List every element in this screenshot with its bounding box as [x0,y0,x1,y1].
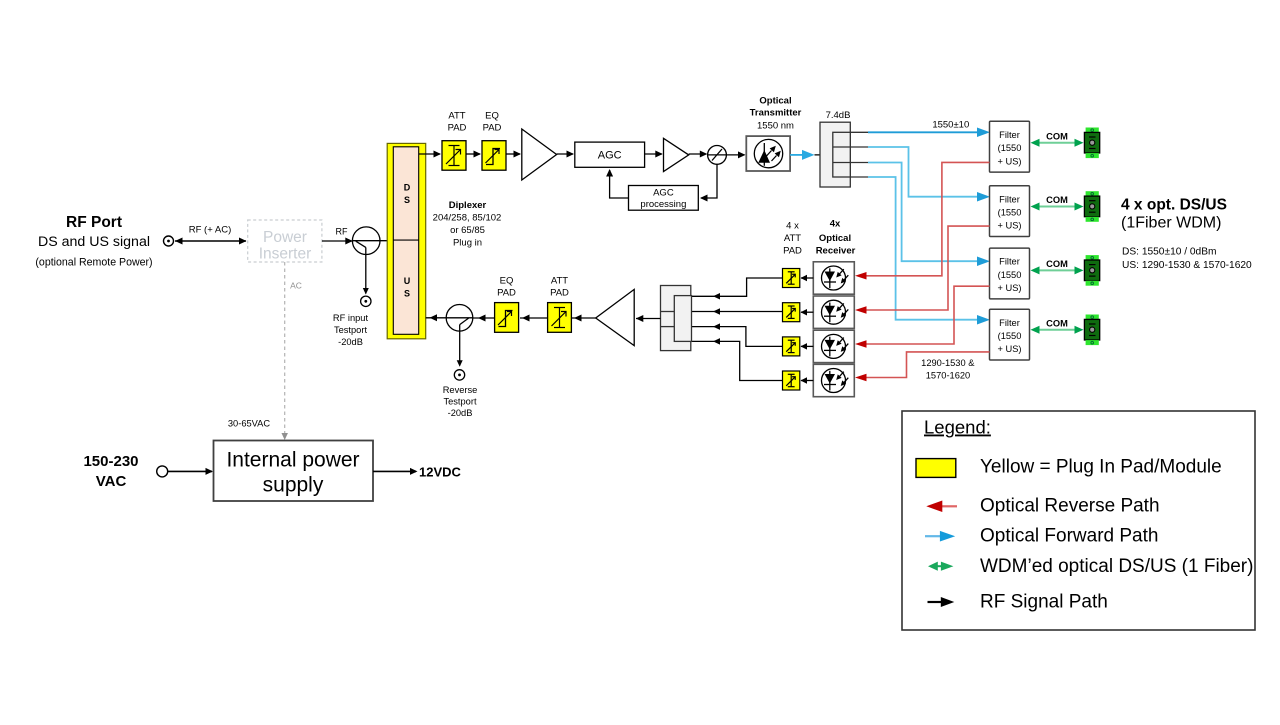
svg-text:12VDC: 12VDC [419,465,462,480]
optical reverse fibre filter2 to RX2 [855,226,990,314]
svg-text:Power: Power [263,229,307,246]
svg-text:(optional Remote Power): (optional Remote Power) [35,257,152,269]
directional coupler C2 (reverse test tap) [446,305,473,332]
svg-text:COM: COM [1046,259,1068,269]
svg-text:ATT: ATT [448,111,465,122]
svg-text:PAD: PAD [550,288,569,299]
WDM filter F3 [990,248,1030,299]
wire AGC processing feedback to AGC [606,169,628,198]
AGC block U1 [575,142,645,167]
wire ATT2 to EQ2 [520,315,548,322]
svg-text:Filter: Filter [999,318,1020,328]
wire RX1 to ATT pad [801,275,814,282]
svg-text:RF input: RF input [333,313,369,323]
svg-text:RF Port: RF Port [66,214,122,231]
wire RX4 to ATT pad [801,377,814,384]
svg-text:COM: COM [1046,195,1068,205]
svg-text:Optical Forward Path: Optical Forward Path [980,526,1158,547]
svg-text:4x: 4x [830,219,841,230]
optical reverse fibre filter3 to RX3 [855,286,990,348]
svg-text:1550 nm: 1550 nm [757,121,794,132]
wire AC dashed from power inserter down [281,262,301,440]
svg-text:Filter: Filter [999,130,1020,140]
wire ATT-R3 to combiner [692,323,783,346]
wire EQ1 to amplifier A1 [506,151,521,158]
svg-text:Legend:: Legend: [924,417,991,438]
svg-text:Diplexer: Diplexer [449,200,487,211]
svg-text:+ US): + US) [997,283,1021,293]
svg-text:Testport: Testport [334,325,367,335]
optical forward fibre to filter 1 [868,128,990,138]
svg-text:(1550: (1550 [998,270,1022,280]
optical connector CON1 [1084,128,1099,159]
optical receiver RX2 [813,296,854,328]
label Diplexer [433,200,502,249]
wire EQ2 to coupler C2 [473,315,495,322]
optical reverse fibre filter4 to RX4 [855,352,990,381]
label 4 x opt. DS/US (1Fiber WDM) [1121,197,1227,232]
legend WDM double arrow [928,562,953,571]
wire ATT1 to EQ1 [466,151,481,158]
svg-text:+ US): + US) [997,221,1021,231]
wire C3 to optical transmitter [726,151,745,158]
equalizer pad EQ2 (plug-in) [495,303,519,333]
attenuator pad ATT-R2 (plug-in) [783,303,800,322]
svg-text:+ US): + US) [997,344,1021,354]
label DS/US wavelengths [1122,247,1252,272]
label Reverse Testport -20dB [443,385,478,418]
svg-text:AC: AC [290,281,302,291]
svg-text:(1550: (1550 [998,208,1022,218]
svg-text:ATT: ATT [551,276,568,287]
svg-text:US: 1290-1530 & 1570-1620: US: 1290-1530 & 1570-1620 [1122,260,1252,271]
attenuator pad ATT-R4 (plug-in) [783,371,800,390]
svg-text:DS and US signal: DS and US signal [38,234,150,250]
legend RF signal arrow [928,597,955,607]
wire RX2 to ATT pad [801,309,814,316]
directional coupler C1 (RF input test tap) [352,227,387,255]
internal power supply PS1 [214,441,374,502]
svg-text:supply: supply [263,474,324,497]
attenuator pad ATT2 (plug-in) [548,303,572,333]
label ATT PAD (reverse) [550,276,569,299]
svg-text:AGC: AGC [653,188,674,199]
svg-text:ATT: ATT [784,233,801,244]
svg-text:processing: processing [640,199,686,210]
svg-text:1550±10: 1550±10 [932,120,969,131]
wire A1 to AGC [557,151,574,158]
attenuator pad ATT1 (plug-in) [442,141,466,171]
power inserter (optional) [248,220,322,263]
wire combiner to amplifier A3 [636,315,661,322]
optical transmitter U3 [746,136,790,171]
svg-text:S: S [404,195,410,205]
wire C2 tap down to reverse testport [457,325,463,367]
wire ATT-R1 to combiner [692,278,783,300]
label Optical Transmitter 1550 nm [750,96,802,132]
optical forward wire TX to splitter (blue arrow) [790,150,833,160]
optical connector CON2 [1084,191,1099,222]
svg-text:-20dB: -20dB [338,337,363,347]
WDM filter F4 [990,309,1030,360]
WDM fibre COM link F3 (green double arrow) [1031,266,1084,274]
wire C3 tap down to AGC processing [700,164,717,201]
svg-text:VAC: VAC [96,473,127,490]
WDM fibre COM link F2 (green double arrow) [1031,203,1084,211]
svg-text:COM: COM [1046,131,1068,141]
svg-text:PAD: PAD [783,246,802,257]
node RF Port label [35,214,152,269]
diplexer plug-in module (yellow) [387,143,426,338]
legend optical reverse arrow [926,501,957,513]
svg-text:1570-1620: 1570-1620 [926,371,970,381]
coupler C3 (AGC sample tap) [708,146,727,165]
optical splitter 7.4dB [820,122,868,187]
svg-text:D: D [404,183,411,193]
diplexer body DS/US [393,147,418,334]
svg-text:Inserter: Inserter [259,246,312,263]
wire PI to coupler, label RF [322,227,353,245]
svg-text:+ US): + US) [997,156,1021,166]
svg-text:EQ: EQ [485,111,499,122]
svg-text:COM: COM [1046,318,1068,328]
AC input connector [157,466,168,477]
amplifier A3 (reverse) [596,289,635,345]
svg-text:RF: RF [336,227,348,237]
WDM filter F1 [990,121,1030,172]
label EQ PAD (forward) [483,111,502,134]
optical connector CON3 [1084,255,1099,286]
wire C2 to diplexer US [426,314,447,321]
amplifier A2 (forward) [664,138,689,171]
label 4x Optical Receiver [816,219,856,257]
optical receiver RX1 [813,262,854,294]
label 1290-1530 & 1570-1620 [921,358,975,381]
wire RX3 to ATT pad [801,343,814,350]
svg-text:4 x opt. DS/US: 4 x opt. DS/US [1121,197,1227,214]
svg-text:PAD: PAD [497,288,516,299]
wire RF (+ AC) [175,225,247,245]
svg-text:DS: 1550±10 / 0dBm: DS: 1550±10 / 0dBm [1122,247,1217,258]
legend yellow swatch [916,459,956,478]
svg-text:Optical: Optical [759,96,791,107]
svg-text:7.4dB: 7.4dB [826,110,851,121]
optical forward fibre to filter 2 [868,147,990,201]
svg-text:Transmitter: Transmitter [750,108,802,119]
optical forward fibre to filter 3 [868,163,990,266]
svg-text:-20dB: -20dB [448,408,473,418]
svg-text:(1550: (1550 [998,331,1022,341]
svg-text:204/258, 85/102: 204/258, 85/102 [433,213,502,224]
svg-text:RF (+ AC): RF (+ AC) [189,225,232,236]
RF combiner 4:1 [661,286,692,351]
svg-text:or 65/85: or 65/85 [450,225,485,236]
wire ATT-R2 to combiner [692,308,783,315]
svg-text:PAD: PAD [483,123,502,134]
RF input testport connector [361,296,371,306]
optical reverse fibre filter1 to RX1 [855,162,990,279]
optical forward fibre to filter 4 [868,177,990,324]
attenuator pad ATT-R1 (plug-in) [783,269,800,288]
svg-text:WDM’ed optical DS/US (1 Fiber): WDM’ed optical DS/US (1 Fiber) [980,556,1253,577]
wire ATT-R4 to combiner [692,338,783,380]
svg-text:1290-1530 &: 1290-1530 & [921,358,975,368]
optical connector CON4 [1084,315,1099,346]
svg-text:Filter: Filter [999,257,1020,267]
wire diplexer DS out [419,151,441,158]
wire A3 to ATT pad (reverse) [572,315,596,322]
label ATT PAD (forward) [448,111,467,134]
RF port connector J1 [164,236,174,246]
svg-text:(1Fiber WDM): (1Fiber WDM) [1121,215,1221,232]
label 4 x ATT PAD [783,221,802,257]
wire A2 to coupler C3 [689,151,708,158]
WDM filter F2 [990,186,1030,237]
equalizer pad EQ1 (plug-in) [482,141,506,171]
optical receiver RX4 [813,364,854,396]
WDM fibre COM link F4 (green double arrow) [1031,326,1084,334]
svg-text:PAD: PAD [448,123,467,134]
svg-text:U: U [404,276,411,286]
svg-text:RF Signal Path: RF Signal Path [980,592,1108,613]
svg-text:30-65VAC: 30-65VAC [228,419,270,429]
WDM fibre COM link F1 (green double arrow) [1031,139,1084,147]
svg-text:Optical Reverse Path: Optical Reverse Path [980,496,1160,517]
svg-text:150-230: 150-230 [83,453,138,470]
svg-text:Receiver: Receiver [816,246,856,257]
svg-text:Internal power: Internal power [226,449,359,472]
reverse testport connector [454,370,464,380]
svg-text:S: S [404,289,410,299]
wire AGC to amplifier A2 [645,151,663,158]
svg-text:Optical: Optical [819,233,851,244]
svg-text:Filter: Filter [999,194,1020,204]
svg-text:(1550: (1550 [998,143,1022,153]
AGC processing block U2 [629,186,699,211]
attenuator pad ATT-R3 (plug-in) [783,337,800,356]
legend box [902,411,1255,630]
legend optical forward arrow [925,531,955,542]
optical receiver RX3 [813,330,854,362]
svg-text:Reverse: Reverse [443,385,478,395]
svg-text:Testport: Testport [443,397,476,407]
label RF input Testport -20dB [333,313,369,347]
label EQ PAD (reverse) [497,276,516,299]
svg-text:Plug in: Plug in [453,238,482,249]
wire AC input to power supply [168,468,213,475]
label 150-230 VAC [83,453,138,490]
wire 12VDC output [373,465,462,480]
amplifier A1 (forward) [522,129,557,180]
svg-text:4 x: 4 x [786,221,799,232]
svg-text:AGC: AGC [598,150,622,162]
svg-text:Yellow = Plug In Pad/Module: Yellow = Plug In Pad/Module [980,457,1222,478]
wire C1 tap down to RF input testport [363,247,369,294]
svg-text:EQ: EQ [500,276,514,287]
